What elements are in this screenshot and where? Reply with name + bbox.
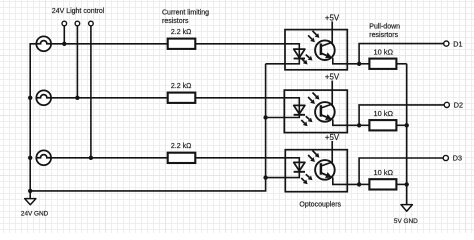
- junction stem1-row1: [62, 42, 66, 46]
- terminal T2: [75, 21, 80, 26]
- svg-text:resisrtors: resisrtors: [369, 32, 398, 39]
- junction leftbus-row3: [28, 156, 32, 160]
- resistor 10k row1: [359, 47, 407, 69]
- svg-text:Pull-down: Pull-down: [369, 23, 400, 30]
- lamp L2: [36, 90, 51, 105]
- wire D1 branch: [359, 44, 444, 64]
- svg-text:Optocouplers: Optocouplers: [299, 202, 341, 209]
- junction emitter2: [357, 123, 361, 127]
- resistor 10k row2: [359, 109, 407, 130]
- wire D3 branch: [359, 158, 443, 184]
- wire row2 resistor-opto: [195, 97, 284, 99]
- junction leftbus-bottombus: [28, 189, 32, 193]
- junction 5Vbus-row2: [405, 123, 409, 127]
- junction emitter3: [357, 182, 361, 186]
- terminal D2: [444, 102, 449, 107]
- svg-text:10 kΩ: 10 kΩ: [374, 168, 394, 177]
- svg-text:2.2 kΩ: 2.2 kΩ: [171, 29, 191, 36]
- +5V label U1: [325, 13, 340, 29]
- junction 5Vbus-row3: [405, 182, 409, 186]
- junction cathodebus-U3: [263, 175, 267, 179]
- svg-text:10 kΩ: 10 kΩ: [374, 47, 394, 56]
- resistor 2.2k row2: [168, 83, 196, 103]
- lamp L1: [36, 36, 51, 51]
- terminal D3: [443, 155, 448, 160]
- +5V label U3: [325, 133, 340, 150]
- wire row3 lamp-resistor: [51, 157, 168, 159]
- optocoupler U2: [266, 90, 360, 133]
- wire control stem 1: [63, 26, 65, 44]
- ground 5V GND: [401, 205, 412, 212]
- junction stem3-row3: [89, 156, 93, 160]
- +5V label U2: [325, 73, 340, 91]
- svg-text:5V GND: 5V GND: [394, 218, 418, 225]
- svg-text:resistors: resistors: [162, 18, 189, 25]
- wire left bus: [30, 44, 36, 199]
- svg-text:+5V: +5V: [325, 133, 340, 142]
- terminal D1: [444, 41, 449, 46]
- wire control stem 3: [90, 26, 92, 158]
- svg-text:+5V: +5V: [325, 73, 340, 82]
- optocoupler U1: [266, 30, 360, 70]
- svg-text:Current limiting: Current limiting: [162, 10, 209, 17]
- svg-text:D3: D3: [453, 154, 462, 163]
- svg-text:24V GND: 24V GND: [21, 210, 49, 217]
- wire row1 resistor-opto: [195, 43, 285, 45]
- resistor 2.2k row3: [168, 143, 196, 163]
- wire control stem 2: [76, 26, 78, 98]
- junction emitter1: [357, 62, 361, 66]
- svg-text:D1: D1: [453, 39, 462, 48]
- wire row1 lamp-resistor: [51, 43, 168, 45]
- wire row3 resistor-opto: [195, 157, 285, 159]
- optocoupler U3: [266, 150, 360, 192]
- wire row2 lamp-resistor: [51, 97, 168, 99]
- svg-text:+5V: +5V: [325, 13, 340, 22]
- lamp L3: [36, 150, 51, 165]
- wire D2 branch: [359, 105, 444, 125]
- terminal T3: [89, 21, 94, 26]
- ground 24V GND: [25, 199, 36, 205]
- junction stem2-row2: [75, 96, 79, 100]
- svg-text:24V Light control: 24V Light control: [52, 8, 105, 15]
- resistor 10k row3: [359, 168, 407, 190]
- svg-text:2.2 kΩ: 2.2 kΩ: [171, 83, 191, 90]
- junction cathodebus-U2: [263, 115, 267, 119]
- wire LED cathode bus: [30, 64, 265, 191]
- wire 5V bus: [406, 64, 408, 205]
- resistor 2.2k row1: [168, 29, 196, 49]
- junction leftbus-row2: [28, 96, 32, 100]
- svg-text:D2: D2: [454, 101, 463, 110]
- svg-text:10 kΩ: 10 kΩ: [374, 109, 394, 118]
- svg-text:2.2 kΩ: 2.2 kΩ: [171, 143, 191, 150]
- terminal T1: [62, 21, 67, 26]
